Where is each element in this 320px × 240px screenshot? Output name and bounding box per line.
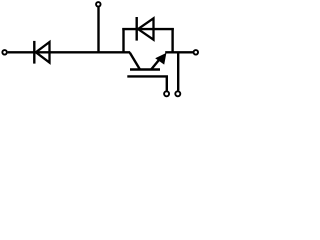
terminal T1 (left, diode anode) xyxy=(2,50,7,55)
diode D1 cathode bar xyxy=(33,41,35,64)
wire: emitter line to right terminal xyxy=(165,51,193,53)
terminal T3 (right, emitter) xyxy=(194,50,199,55)
terminal T4 (gate) xyxy=(164,91,169,96)
terminal T2 (top, collector) xyxy=(96,2,101,7)
wire: freewheel-diode loop left leg xyxy=(122,28,124,54)
diode D1 triangle xyxy=(36,42,50,63)
diode D2 cathode bar xyxy=(135,17,137,41)
wire: top terminal lead xyxy=(97,7,99,53)
IGBT Q1 gate bar and gate lead xyxy=(127,76,167,90)
IGBT Q1 body bar xyxy=(130,68,160,71)
wire: emitter auxiliary lead xyxy=(177,52,179,90)
IGBT Q1 collector diagonal xyxy=(130,53,140,70)
terminal T5 (emitter aux) xyxy=(175,91,180,96)
IGBT Q1 emitter arrow shaft xyxy=(151,58,161,70)
diode D2 triangle xyxy=(138,18,154,39)
wire: freewheel-diode loop right leg xyxy=(171,28,173,52)
wire: main collector rail xyxy=(8,51,131,53)
IGBT Q1 emitter arrowhead xyxy=(155,53,166,65)
wire: freewheel-diode axis xyxy=(122,28,174,30)
